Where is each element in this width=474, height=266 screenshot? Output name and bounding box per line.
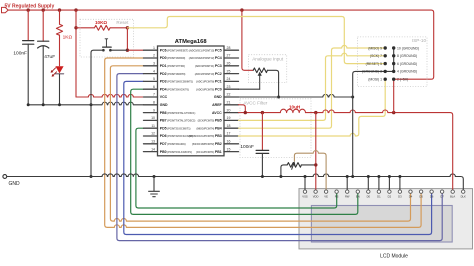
pin 25 PC2 stub [224,73,239,75]
potentiometer VR2 contrast left lead [281,165,287,177]
node junction button-gnd/cap bus [90,103,93,106]
svg-text:PB6 (PCINT6/XTAL1/TOSC1): PB6 (PCINT6/XTAL1/TOSC1) [160,111,196,115]
node junction AVCC/100nF [261,111,264,114]
svg-text:D7: D7 [440,194,444,198]
svg-text:GND: GND [214,95,222,99]
pin 28 PC5 stub [224,49,239,51]
svg-text:(SS/OC1B/PCINT2) PB2: (SS/OC1B/PCINT2) PB2 [192,142,222,146]
ground symbol [149,177,160,197]
svg-text:(MOSI) 1: (MOSI) 1 [368,78,382,82]
svg-text:D6: D6 [430,194,434,198]
svg-text:RW: RW [345,194,350,198]
node junction rail/100nF [27,8,30,11]
wire VCC feed to pin7 with hops [76,94,144,97]
node junction bus2/LED [58,103,61,106]
switch S1 reset button contact bar [103,46,112,48]
node junction button-gnd/main bus [90,175,93,178]
wire AREF link to AVCC [239,105,246,113]
pin 5 PD3 stub [144,80,158,82]
wire 10K to reset node [110,27,127,29]
wire PD5 pin11 to LCD RS (green) [136,128,337,208]
svg-text:Analogue Input: Analogue Input [252,56,284,61]
capacitor C3 100nF plates [256,150,269,153]
svg-text:5: 5 [153,77,155,81]
svg-text:10 (GROUND): 10 (GROUND) [397,46,419,50]
pin 18 PB4 stub [224,127,239,129]
wire PD1 pin3 to LCD D4 (orange) [110,66,410,221]
svg-text:D0: D0 [367,194,371,198]
svg-text:(ADC3/PCINT11) PC3: (ADC3/PCINT11) PC3 [195,64,222,68]
wire PD4 pin6 to LCD EN (green) [131,89,358,214]
switch S1 reset button actuator [105,39,108,47]
svg-text:(MISO/PCINT4) PB4: (MISO/PCINT4) PB4 [197,126,222,130]
LCD pin D2 [388,177,390,191]
node junction pin22-gnd/ISP-gnd drop [351,96,354,99]
svg-text:1: 1 [153,46,155,50]
LCD pin D7 [440,190,443,193]
svg-text:PD2 (PCINT18/INT0): PD2 (PCINT18/INT0) [160,72,186,76]
svg-text:AVCC: AVCC [212,111,222,115]
node junction rail/47uF [42,8,45,11]
svg-text:23: 23 [227,85,231,89]
pin 21 AREF stub [224,104,239,106]
LCD pin RS [335,190,338,193]
wire ISP ground pin3 to main bus [353,71,386,176]
LCD pin D6 [430,190,433,193]
pin 13 PD7 stub [144,143,158,145]
svg-text:(MOSI/OC2A/PCINT3) PB3: (MOSI/OC2A/PCINT3) PB3 [189,134,222,138]
svg-text:(ADC2/PCINT10) PC2: (ADC2/PCINT10) PC2 [195,72,222,76]
dotted box reset group [80,19,134,57]
pin 6 PD4 stub [144,88,158,90]
node junction ISP-gnd/main bus [351,175,354,178]
svg-text:PB7 (PCINT7/XTAL2/TOSC2): PB7 (PCINT7/XTAL2/TOSC2) [160,119,196,123]
svg-text:ATMega168: ATMega168 [175,39,208,45]
capacitor C3 100nF lead top [261,113,263,151]
svg-text:D5: D5 [419,194,423,198]
LED D1 cathode lead [59,74,61,105]
svg-text:LCD Module: LCD Module [380,254,408,260]
wire button right to pin1 line [110,49,127,51]
svg-text:(ADC5/SCL/PCINT13) PC5: (ADC5/SCL/PCINT13) PC5 [189,48,222,52]
wire AVCC pin20 line [239,112,281,114]
svg-text:D1: D1 [377,194,381,198]
svg-text:100nF: 100nF [13,50,27,56]
pin 3 PD1 stub [144,65,158,67]
svg-text:22: 22 [227,93,231,97]
svg-text:28: 28 [227,46,231,50]
svg-text:PD1 (PCINT17/TXD): PD1 (PCINT17/TXD) [160,64,185,68]
svg-text:(SCK/PCINT5) PB5: (SCK/PCINT5) PB5 [198,119,222,123]
svg-text:(SCK) 7: (SCK) 7 [370,54,382,58]
pin 1 PC6 stub [144,49,158,51]
wire ISP +5V pin2 drop [393,79,395,112]
resistor R1 10K lead left [76,27,95,29]
capacitor C1 100nF lead bottom [27,44,29,105]
svg-text:(ADC1/PCINT9) PC1: (ADC1/PCINT9) PC1 [196,80,222,84]
wire main ground bus with hops [7,174,464,190]
pin 23 PC0 stub [224,88,239,90]
wire analog pot +5V feed [242,10,253,70]
svg-text:BLA: BLA [450,194,455,198]
svg-text:12: 12 [151,132,155,136]
svg-text:PD4 (PCINT20/XCK/T0): PD4 (PCINT20/XCK/T0) [160,87,189,91]
svg-text:100nF: 100nF [240,144,254,150]
svg-text:VE: VE [324,194,328,198]
svg-text:VSS: VSS [302,194,308,198]
node junction rail/VCC [74,8,77,11]
svg-text:10KΩ: 10KΩ [95,20,107,25]
wire VR2 wiper to LCD VE (tan) [294,151,326,190]
capacitor C2 47uF lead bottom [42,46,44,104]
ISP pin 2 [392,78,395,81]
wire decoupling ground bus (caps/LED to pin8) with hops [28,102,143,105]
resistor R2 1K body [56,24,62,35]
wire VR2 right lead to VDD [301,164,315,166]
inductor L1 10uH body [280,109,305,112]
wire GND pin22 to LCD area with hops [239,94,353,97]
svg-text:20: 20 [227,108,231,112]
pin 20 AVCC stub [224,112,239,114]
ISP pin 7 [384,54,387,57]
LCD pin VDD [314,190,317,193]
svg-text:16: 16 [227,140,231,144]
svg-text:PD5 (PCINT21/OC0B/T1): PD5 (PCINT21/OC0B/T1) [160,126,191,130]
svg-text:11: 11 [151,124,155,128]
LCD module outer box [299,189,473,249]
capacitor C1 100nF lead top [27,10,29,40]
svg-text:PD0 (PCINT16/RXD): PD0 (PCINT16/RXD) [160,56,186,60]
pin 10 PB7 stub [144,119,158,121]
node junction AVCC/AREF [244,111,247,114]
potentiometer VR2 wiper arrow [292,164,294,169]
ISP dotted box [358,37,428,87]
pin 14 PB0 stub [144,151,158,153]
svg-text:10: 10 [151,116,155,120]
pin 7 VCC stub [144,96,158,98]
svg-text:GND: GND [9,181,21,187]
LCD module inner box [311,206,452,243]
svg-text:4 (GROUND): 4 (GROUND) [397,70,417,74]
wire VR1 wiper to pin23 [239,88,260,90]
wire reset node to chip pin1 [127,49,143,51]
svg-text:(RESET) 5: (RESET) 5 [366,62,383,66]
svg-text:24: 24 [227,77,231,81]
ISP pin 5 [384,62,387,65]
svg-text:D2: D2 [388,194,392,198]
svg-text:D3: D3 [398,194,402,198]
resistor R1 10K body [95,25,111,30]
LCD pin BLA [451,190,454,193]
resistor R2 1K lead top [59,10,61,24]
pin 22 GND stub [224,96,239,98]
pin 19 PB5 stub [224,119,239,121]
svg-text:19: 19 [227,116,231,120]
svg-text:26: 26 [227,62,231,66]
svg-text:8: 8 [153,101,155,105]
node junction VCC/reset-resistor branch [74,26,77,29]
svg-text:VDD: VDD [313,194,319,198]
wire 1K to LED [59,35,61,66]
svg-text:13: 13 [151,140,155,144]
LCD pin D3 [399,177,401,191]
node junction VR2/main bus [279,175,282,178]
node junction rail/1K [58,8,61,11]
LCD pin VSS [304,177,306,191]
pin 15 PB1 stub [224,151,239,153]
LCD pin EN [356,190,359,193]
wire PD0 pin2 to LCD D5 (orange) [105,58,421,227]
svg-text:D4: D4 [409,194,413,198]
svg-text:(MISO) 9: (MISO) 9 [368,46,382,50]
wire button left down to ground [91,50,103,176]
wire VDD drop from AVCC line [315,113,317,190]
svg-text:4: 4 [153,69,155,73]
wire SCK pin19 to ISP (yellow) [239,53,386,120]
svg-text:25: 25 [227,69,231,73]
svg-text:RS: RS [335,194,339,198]
node +5V supply connector [2,7,9,12]
node junction bus2/47uF [42,103,45,106]
wire PD2 pin4 to LCD D7 (slate) [117,74,442,241]
capacitor C3 100nF lead bottom [261,153,263,176]
wire ISP ground column link [385,48,394,71]
svg-text:(ADC4/SDA/PCINT12) PC4: (ADC4/SDA/PCINT12) PC4 [189,56,222,60]
dotted box analogue input group [249,55,287,83]
svg-text:14: 14 [151,147,155,151]
svg-text:3: 3 [153,62,155,66]
ISP pin 3 [384,70,387,73]
svg-text:10uH: 10uH [289,104,301,109]
svg-text:GND: GND [160,103,168,107]
LCD pin VE [324,190,327,193]
pin 8 GND stub [144,104,158,106]
wire RESET node to ISP (yellow) [127,17,385,64]
svg-text:18: 18 [227,124,231,128]
svg-text:(GROUND) 3: (GROUND) 3 [362,70,382,74]
svg-text:27: 27 [227,54,231,58]
svg-text:6 (GROUND): 6 (GROUND) [397,62,417,66]
svg-text:PD3 (PCINT19/OC2B/INT1): PD3 (PCINT19/OC2B/INT1) [160,80,193,84]
svg-text:47uF: 47uF [44,54,55,60]
node junction VR2/VDD drop [314,163,317,166]
capacitor C2 47uF lead top [42,10,44,41]
node GND connector [3,175,7,179]
LED D1 emission arrows [52,68,56,75]
pin 27 PC4 stub [224,57,239,59]
ISP pin 10 [392,46,395,49]
svg-text:VCC: VCC [160,95,168,99]
capacitor C2 47uF plates [38,41,49,48]
LCD pin D5 [419,190,422,193]
svg-text:PB0 (PCINT0/CLKO/ICP1): PB0 (PCINT0/CLKO/ICP1) [160,150,192,154]
wire MOSI pin17 to ISP (yellow) [239,79,386,136]
svg-text:PD7 (PCINT23/AIN1): PD7 (PCINT23/AIN1) [160,142,186,146]
node junction VR1/gnd line [277,96,280,99]
pin 16 PB2 stub [224,143,239,145]
wire AVCC line L1 to +5V/BLA with hops [306,110,453,190]
capacitor C1 100nF plates [23,41,34,45]
potentiometer VR1 analogue input body [253,68,267,73]
pin 11 PD5 stub [144,127,158,129]
potentiometer VR2 contrast body [287,163,301,168]
svg-text:2 (+5V): 2 (+5V) [397,78,408,82]
pin 2 PD0 stub [144,57,158,59]
node junction rail/analog-pot feed [240,8,243,11]
LED D1 [55,66,63,73]
svg-text:Reset: Reset [116,20,129,25]
node junction C3/main bus [261,175,264,178]
svg-text:AREF: AREF [212,103,222,107]
svg-text:15: 15 [227,147,231,151]
wire +5V rail [8,10,434,79]
pin 12 PD6 stub [144,135,158,137]
svg-text:1KΩ: 1KΩ [63,34,73,40]
LCD pin D0 [367,177,369,191]
switch S1 terminals [102,49,105,52]
pin 26 PC3 stub [224,65,239,67]
ISP pin 8 [392,54,395,57]
potentiometer VR1 wiper arrow [259,75,261,89]
node junction AVCC/ISP +5V [392,111,395,114]
svg-text:7: 7 [153,93,155,97]
svg-text:2: 2 [153,54,155,58]
svg-text:(OC1A/PCINT1) PB1: (OC1A/PCINT1) PB1 [196,150,222,154]
svg-text:AVCC Filter: AVCC Filter [243,100,267,105]
svg-text:(ADC0/PCINT8) PC0: (ADC0/PCINT8) PC0 [196,87,222,91]
pin 9 PB6 stub [144,112,158,114]
LCD pin D4 [409,190,412,193]
chip U1 ATMega168 body [158,46,225,156]
wire MISO pin18 to ISP (yellow) [239,45,386,128]
wire VR1 right end to ground [267,70,278,97]
node junction AVCC/VDD drop [314,111,317,114]
svg-text:6: 6 [153,85,155,89]
pin 24 PC1 stub [224,80,239,82]
svg-text:5V Regulated Supply: 5V Regulated Supply [5,4,55,10]
node junction reset/pin1 [126,49,129,52]
ISP pin 9 [384,46,387,49]
ISP pin 6 [392,62,395,65]
svg-text:17: 17 [227,132,231,136]
wire reset node down to pin1 row [126,28,128,50]
node reset junction [126,26,129,29]
svg-text:ISP-10: ISP-10 [412,38,426,43]
svg-text:PC6 (PCINT14/RESET): PC6 (PCINT14/RESET) [160,48,189,52]
svg-text:9: 9 [153,108,155,112]
pin 17 PB3 stub [224,135,239,137]
svg-text:EN: EN [356,194,360,198]
dotted box AVCC filter group [240,99,311,158]
svg-text:8 (GROUND): 8 (GROUND) [397,54,417,58]
node junction bus2/100nF [27,103,30,106]
LCD pin D1 [378,177,380,191]
svg-text:DLK: DLK [461,194,466,198]
node junction bus/ground-symbol [153,175,156,178]
svg-text:21: 21 [227,101,231,105]
wire PD3 pin5 to LCD D6 (blue) [124,81,432,234]
ISP pin 4 [392,70,395,73]
ISP pin 1 [384,78,387,81]
LCD pin RW [346,177,348,191]
LCD pin DLK [462,190,465,193]
pin 4 PD2 stub [144,73,158,75]
wire VCC vertical from rail [75,10,77,97]
